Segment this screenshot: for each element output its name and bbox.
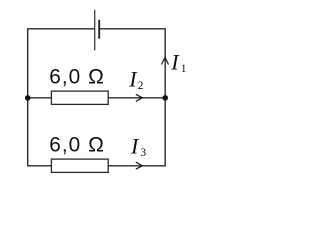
wire top-left segment [28,28,95,30]
wire right side [164,28,166,166]
wire bottom branch [28,165,166,167]
svg-text:3: 3 [140,147,146,159]
svg-text:2: 2 [138,80,144,92]
wire left side [27,28,29,166]
svg-text:6,0 Ω: 6,0 Ω [49,133,105,156]
battery short plate [98,20,100,39]
wire top-right segment [99,28,165,30]
current arrow I1 (up, on right wire) [162,57,169,64]
current arrow I3 (right, on bottom branch) [136,162,143,169]
resistor R2 box (middle branch) [51,91,108,104]
resistor R3 box (bottom branch) [51,159,108,172]
node left junction [25,95,31,101]
current arrow I2 (right, on middle branch) [136,94,143,101]
wire middle branch [28,97,166,99]
svg-text:1: 1 [181,63,187,75]
node right junction [162,95,168,101]
battery long plate [94,10,96,51]
svg-text:6,0 Ω: 6,0 Ω [49,65,105,88]
